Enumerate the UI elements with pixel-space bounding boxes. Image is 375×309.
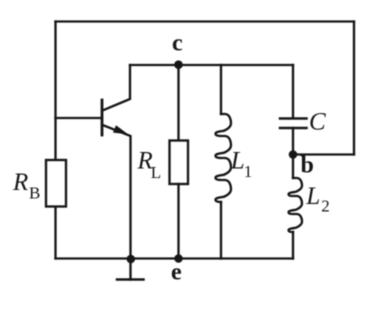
- transistor Q1 emitter lead: [103, 125, 131, 259]
- wire capacitor bottom lead: [292, 128, 294, 155]
- wire L2 top lead: [292, 155, 294, 179]
- wire top rail: [56, 20, 355, 22]
- ground bar: [117, 278, 144, 281]
- wire collector branch rail: [130, 64, 293, 66]
- wire capacitor top lead: [292, 65, 294, 118]
- wire R_L top lead: [177, 65, 179, 141]
- node b junction dot: [289, 150, 298, 159]
- svg-text:C: C: [309, 109, 326, 136]
- svg-text:RL: RL: [137, 148, 162, 183]
- svg-text:b: b: [301, 153, 314, 179]
- resistor R_L body: [170, 141, 189, 185]
- node c junction dot: [174, 60, 183, 69]
- capacitor C bottom plate: [280, 127, 307, 130]
- wire L2 bottom lead: [292, 232, 294, 259]
- capacitor C top plate: [280, 117, 307, 120]
- svg-text:L2: L2: [305, 183, 330, 216]
- wire L1 bottom lead: [220, 202, 222, 259]
- inductor L1 coil: [216, 114, 232, 202]
- wire feedback to node b: [293, 153, 354, 155]
- emitter junction dot: [127, 255, 136, 264]
- transistor Q1 emitter arrow: [113, 125, 128, 134]
- svg-text:L1: L1: [230, 148, 253, 182]
- wire L1 top lead: [220, 65, 222, 114]
- ground stub: [129, 259, 131, 280]
- wire left rail: [54, 22, 56, 259]
- node e junction dot: [174, 254, 183, 263]
- svg-text:RB: RB: [12, 169, 40, 203]
- transistor Q1 base bar: [101, 100, 104, 135]
- transistor Q1 collector lead: [103, 65, 131, 111]
- inductor L2 coil: [289, 178, 303, 232]
- wire bottom rail: [56, 257, 294, 259]
- wire base lead: [56, 117, 103, 119]
- resistor R_B body: [46, 160, 66, 207]
- svg-text:c: c: [172, 31, 183, 57]
- wire right feedback vertical: [353, 22, 355, 155]
- wire R_L bottom lead: [177, 184, 179, 259]
- svg-text:e: e: [171, 260, 182, 286]
